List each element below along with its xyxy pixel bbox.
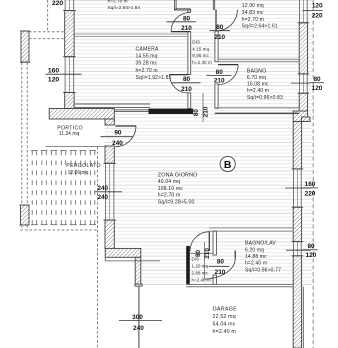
svg-text:6.70 mq: 6.70 mq (247, 75, 266, 81)
svg-text:210: 210 (181, 86, 192, 93)
svg-text:240: 240 (97, 194, 108, 201)
svg-text:108.10 mc: 108.10 mc (158, 186, 183, 192)
svg-text:220: 220 (312, 13, 323, 20)
svg-text:160: 160 (305, 181, 316, 188)
svg-text:12.90 mq: 12.90 mq (242, 3, 264, 9)
svg-text:ZONA GIORNO: ZONA GIORNO (158, 172, 198, 178)
svg-text:12.06 mq: 12.06 mq (68, 170, 89, 176)
svg-text:80: 80 (313, 76, 321, 83)
svg-text:90: 90 (114, 130, 122, 137)
svg-text:h=2.70 m: h=2.70 m (108, 0, 128, 5)
svg-text:h=2.40 m: h=2.40 m (192, 278, 212, 283)
svg-text:h=2.40 m: h=2.40 m (247, 88, 269, 94)
svg-text:240: 240 (97, 185, 108, 192)
svg-text:h=2.40 m: h=2.40 m (192, 60, 212, 65)
svg-text:220: 220 (52, 0, 64, 7)
svg-text:120: 120 (312, 2, 323, 9)
svg-text:h=2.40 m: h=2.40 m (213, 329, 237, 335)
svg-text:22.52 mq: 22.52 mq (213, 314, 236, 320)
svg-text:1.20 mq: 1.20 mq (192, 263, 209, 268)
svg-text:GARAGE: GARAGE (213, 307, 238, 313)
svg-text:Sq/i=1.92>1.81: Sq/i=1.92>1.81 (136, 75, 172, 81)
svg-text:40.04 mq: 40.04 mq (158, 179, 180, 185)
svg-text:210: 210 (215, 269, 226, 276)
svg-text:6.20 mq: 6.20 mq (245, 247, 264, 253)
svg-text:BAGNO: BAGNO (247, 68, 267, 74)
svg-text:39.28 mc: 39.28 mc (136, 61, 158, 67)
svg-text:80: 80 (307, 243, 315, 250)
svg-text:h=2.70 m: h=2.70 m (136, 68, 158, 74)
svg-text:80: 80 (216, 24, 224, 31)
svg-text:PERGOLATO: PERGOLATO (66, 163, 101, 169)
svg-text:h=2.70 m: h=2.70 m (158, 193, 181, 199)
svg-text:14.88 mc: 14.88 mc (245, 254, 267, 260)
svg-text:54.04 mc: 54.04 mc (213, 322, 236, 328)
svg-text:DIS: DIS (192, 256, 200, 261)
svg-text:BAGNO/LAV: BAGNO/LAV (245, 241, 276, 247)
svg-text:300: 300 (132, 314, 143, 321)
svg-text:210: 210 (181, 25, 192, 32)
svg-text:210: 210 (204, 248, 211, 259)
svg-text:80: 80 (216, 69, 224, 76)
svg-text:220: 220 (305, 190, 316, 197)
svg-text:80: 80 (217, 259, 225, 266)
svg-text:9.96 mc: 9.96 mc (192, 53, 209, 58)
svg-text:Sq/i=2.64>1.61: Sq/i=2.64>1.61 (242, 24, 278, 30)
svg-text:h=2.40 m: h=2.40 m (245, 261, 267, 267)
svg-text:120: 120 (48, 77, 60, 84)
svg-text:210: 210 (214, 34, 225, 41)
svg-text:210: 210 (214, 77, 225, 84)
svg-text:14.55 mq: 14.55 mq (136, 53, 158, 59)
svg-text:Sq/i=2.64>1.84: Sq/i=2.64>1.84 (108, 5, 141, 11)
svg-text:16.08 mc: 16.08 mc (247, 82, 269, 88)
svg-text:B: B (224, 159, 232, 171)
svg-text:Sq/i=0.96>0.83: Sq/i=0.96>0.83 (247, 95, 283, 101)
svg-text:34.83 mc: 34.83 mc (242, 10, 264, 16)
svg-text:Sq/i=9.28>5.00: Sq/i=9.28>5.00 (158, 199, 195, 205)
svg-text:120: 120 (312, 85, 323, 92)
svg-text:210: 210 (203, 106, 210, 117)
svg-text:120: 120 (306, 252, 317, 259)
svg-text:240: 240 (112, 140, 123, 147)
svg-text:80: 80 (183, 76, 191, 83)
svg-text:CAMERA: CAMERA (136, 46, 159, 52)
svg-text:11.34 mq: 11.34 mq (59, 131, 80, 137)
svg-text:Sq/i=0.96>0.77: Sq/i=0.96>0.77 (245, 267, 281, 273)
svg-text:240: 240 (133, 325, 144, 332)
svg-text:h=2.70 m: h=2.70 m (242, 17, 264, 23)
svg-text:4.15 mq: 4.15 mq (192, 46, 209, 51)
svg-text:2.88 mc: 2.88 mc (192, 271, 209, 276)
svg-text:160: 160 (48, 67, 60, 74)
svg-text:DIS: DIS (192, 40, 200, 45)
svg-text:80: 80 (193, 109, 200, 117)
